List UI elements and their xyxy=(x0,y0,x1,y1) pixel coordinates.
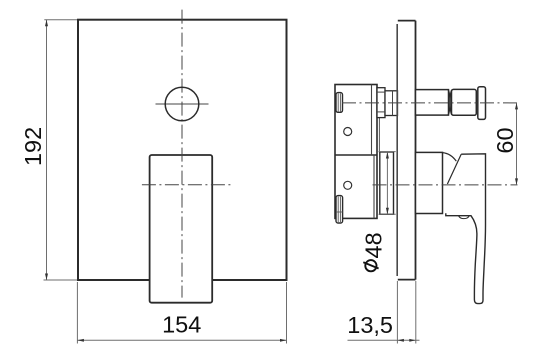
svg-text:13,5: 13,5 xyxy=(347,312,393,338)
svg-text:154: 154 xyxy=(162,311,201,337)
svg-text:192: 192 xyxy=(20,127,46,166)
svg-text:60: 60 xyxy=(492,127,518,153)
svg-text:48: 48 xyxy=(361,232,387,258)
